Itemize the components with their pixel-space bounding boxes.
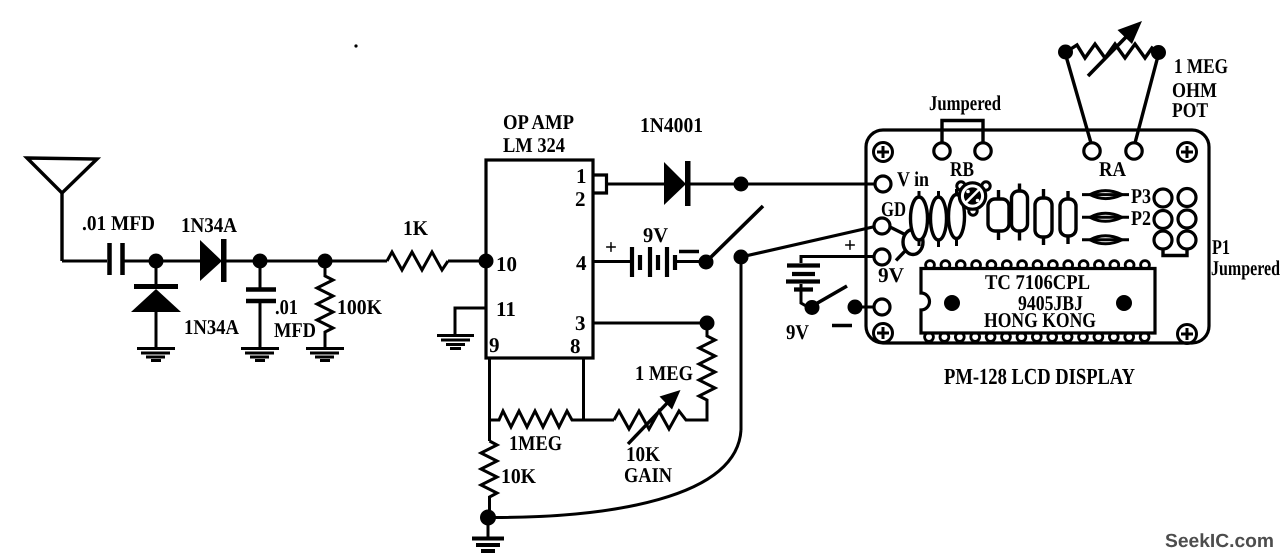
pot leads to RA: [1066, 56, 1091, 143]
pin V in: [875, 176, 891, 192]
node S2 output: [848, 300, 863, 315]
svg-text:PM-128 LCD DISPLAY: PM-128 LCD DISPLAY: [944, 364, 1135, 389]
P1 jumper bracket: [1163, 249, 1187, 256]
op-amp U1 LM324 body: [486, 160, 593, 358]
pin battery minus: [874, 299, 890, 315]
wire 1K to op-amp pin 10: [448, 260, 486, 263]
wire junction down: [740, 257, 743, 430]
svg-text:+: +: [844, 233, 856, 257]
pot arrow: [1088, 35, 1128, 76]
wire into 10K resistor: [488, 420, 491, 441]
wire bracket to D3: [606, 183, 665, 186]
ground under D2: [137, 349, 175, 361]
LCD module PM-128 board: [866, 130, 1209, 343]
screw bottom-left: [874, 324, 893, 343]
pad grid row1 right: [1178, 189, 1196, 207]
wire D1 to R-1K: [226, 260, 387, 263]
wire antenna to C1: [62, 260, 107, 263]
screw bottom-right: [1178, 325, 1197, 344]
switch S2: [805, 300, 820, 315]
board component B3: [1035, 189, 1052, 245]
wire B2 plus to 9V pin: [801, 257, 875, 264]
ground (main): [472, 539, 504, 552]
svg-text:1N4001: 1N4001: [640, 113, 703, 137]
label minus (B2): [832, 324, 852, 328]
potentiometer 10K GAIN: [614, 411, 705, 429]
pad grid row2 right: [1178, 210, 1196, 228]
wire under op-amp left: [488, 358, 491, 420]
svg-text:.01 MFD: .01 MFD: [82, 211, 155, 235]
wire D3 to V in: [690, 183, 876, 186]
svg-text:1MEG: 1MEG: [509, 431, 562, 455]
svg-text:GAIN: GAIN: [624, 463, 672, 487]
diode D1 1N34A (series): [200, 239, 227, 282]
node junction at R 100K: [318, 254, 333, 269]
svg-text:1K: 1K: [403, 216, 429, 240]
svg-text:.01: .01: [275, 295, 298, 319]
IC dot left: [944, 295, 960, 311]
wire pin 3 to 1 MEG: [593, 322, 707, 325]
diode D3 1N4001: [664, 161, 691, 206]
wire B1 to switch S1: [677, 260, 701, 263]
wire B2 minus down: [801, 284, 806, 306]
svg-text:P2: P2: [1131, 206, 1151, 230]
pad grid row3 left: [1154, 231, 1172, 249]
pin GD: [874, 218, 890, 234]
wire under op-amp right: [582, 358, 585, 420]
screw top-right: [1178, 143, 1197, 162]
lens pad P2: [1082, 213, 1129, 221]
node junction at C2: [253, 254, 268, 269]
pot terminal left: [1058, 45, 1073, 60]
capacitor E3 (board): [949, 189, 965, 246]
diode D2 1N34A (shunt to ground): [131, 268, 181, 347]
potentiometer 1 MEG OHM POT: [1066, 44, 1158, 58]
svg-text:9V: 9V: [643, 223, 668, 247]
wire node to module pin: [855, 306, 875, 309]
ground under 100K: [306, 349, 344, 361]
wire pin 11 to ground: [455, 308, 486, 334]
svg-text:1 MEG: 1 MEG: [1174, 54, 1228, 78]
node ground-bus junction: [734, 250, 749, 265]
switch S1: [699, 255, 714, 270]
stray dot: [354, 44, 357, 47]
lens pad P3: [1082, 191, 1129, 199]
battery B2 9V (display supply): [786, 266, 820, 290]
wire pin 4 to battery B1: [593, 260, 631, 263]
svg-text:100K: 100K: [337, 295, 383, 319]
resistor R 10K: [481, 441, 497, 517]
wire to main ground: [487, 517, 490, 537]
svg-text:2: 2: [575, 187, 586, 211]
capacitor E2 (board): [931, 191, 947, 247]
pad grid row2 left: [1154, 211, 1172, 229]
svg-text:LM 324: LM 324: [503, 133, 565, 157]
svg-text:9V: 9V: [786, 320, 809, 344]
ground under C2: [241, 349, 279, 361]
pad RB left: [934, 143, 950, 159]
svg-text:Jumpered: Jumpered: [1211, 256, 1280, 280]
pad grid row3 right: [1178, 231, 1196, 249]
svg-text:V in: V in: [897, 167, 929, 191]
screw top-left: [874, 143, 893, 162]
wire C1 to D1: [124, 260, 200, 263]
svg-text:1N34A: 1N34A: [184, 315, 240, 339]
svg-text:RB: RB: [950, 157, 974, 181]
capacitor C1 .01 MFD: [110, 243, 123, 275]
wire curve to ground node: [489, 430, 741, 518]
pad grid row1 left: [1154, 189, 1172, 207]
pad RA left: [1084, 143, 1100, 159]
capacitor C2 .01 MFD: [246, 267, 276, 347]
node pin-3 junction: [700, 316, 715, 331]
IC U2 TC7106CPL: [921, 269, 1155, 334]
IC pin bumps bottom: [925, 333, 1149, 342]
svg-text:POT: POT: [1172, 98, 1208, 122]
antenna: [27, 158, 97, 261]
lens pad bottom: [1082, 236, 1129, 244]
pad RA right: [1126, 143, 1142, 159]
svg-text:HONG KONG: HONG KONG: [984, 308, 1096, 332]
resistor R 1MEG (horizontal): [490, 411, 615, 427]
svg-text:4: 4: [576, 251, 587, 275]
IC pin bumps top: [926, 261, 1150, 270]
resistor R 1 MEG (vertical): [699, 323, 715, 420]
trimmer (board): [957, 182, 990, 215]
pot terminal right: [1151, 45, 1166, 60]
svg-text:P3: P3: [1131, 184, 1151, 208]
node junction at detector: [149, 254, 164, 269]
resistor R 1K: [387, 252, 448, 270]
svg-text:1 MEG: 1 MEG: [635, 361, 693, 385]
svg-text:GD: GD: [881, 197, 906, 221]
svg-text:Jumpered: Jumpered: [929, 91, 1001, 115]
resistor R 100K: [317, 267, 333, 347]
svg-text:9V: 9V: [878, 263, 904, 287]
pin 9V: [874, 249, 890, 265]
svg-text:SeekIC.com: SeekIC.com: [1165, 531, 1274, 552]
pad RB right: [975, 143, 991, 159]
wire junction to GD pin: [741, 227, 875, 258]
ground at pin 11: [437, 336, 474, 349]
pot wiper arrow: [628, 399, 671, 444]
pins 1-2 output bracket: [593, 175, 607, 193]
transistor probe component: [890, 227, 923, 261]
svg-text:10: 10: [496, 252, 517, 276]
svg-text:1N34A: 1N34A: [181, 213, 238, 237]
IC dot right: [1116, 295, 1132, 311]
node pin 10: [479, 254, 494, 269]
RB jumper bracket: [942, 121, 983, 144]
battery B1 9V: [632, 247, 675, 277]
board component B4: [1060, 191, 1076, 244]
svg-text:10K: 10K: [501, 464, 537, 488]
svg-text:3: 3: [575, 311, 586, 335]
label minus (B1): [679, 250, 699, 254]
svg-text:MFD: MFD: [274, 318, 316, 342]
node ground junction: [480, 510, 496, 526]
svg-text:11: 11: [496, 297, 516, 321]
svg-text:8: 8: [570, 334, 581, 358]
svg-text:RA: RA: [1099, 157, 1127, 181]
svg-text:1: 1: [576, 164, 587, 188]
board component B2: [1012, 184, 1028, 241]
capacitor E1 (board): [911, 191, 928, 246]
svg-text:+: +: [605, 235, 617, 259]
node junction on output wire: [734, 177, 749, 192]
svg-text:9: 9: [489, 333, 500, 357]
board component B1: [988, 190, 1009, 240]
svg-text:OP AMP: OP AMP: [503, 110, 574, 134]
